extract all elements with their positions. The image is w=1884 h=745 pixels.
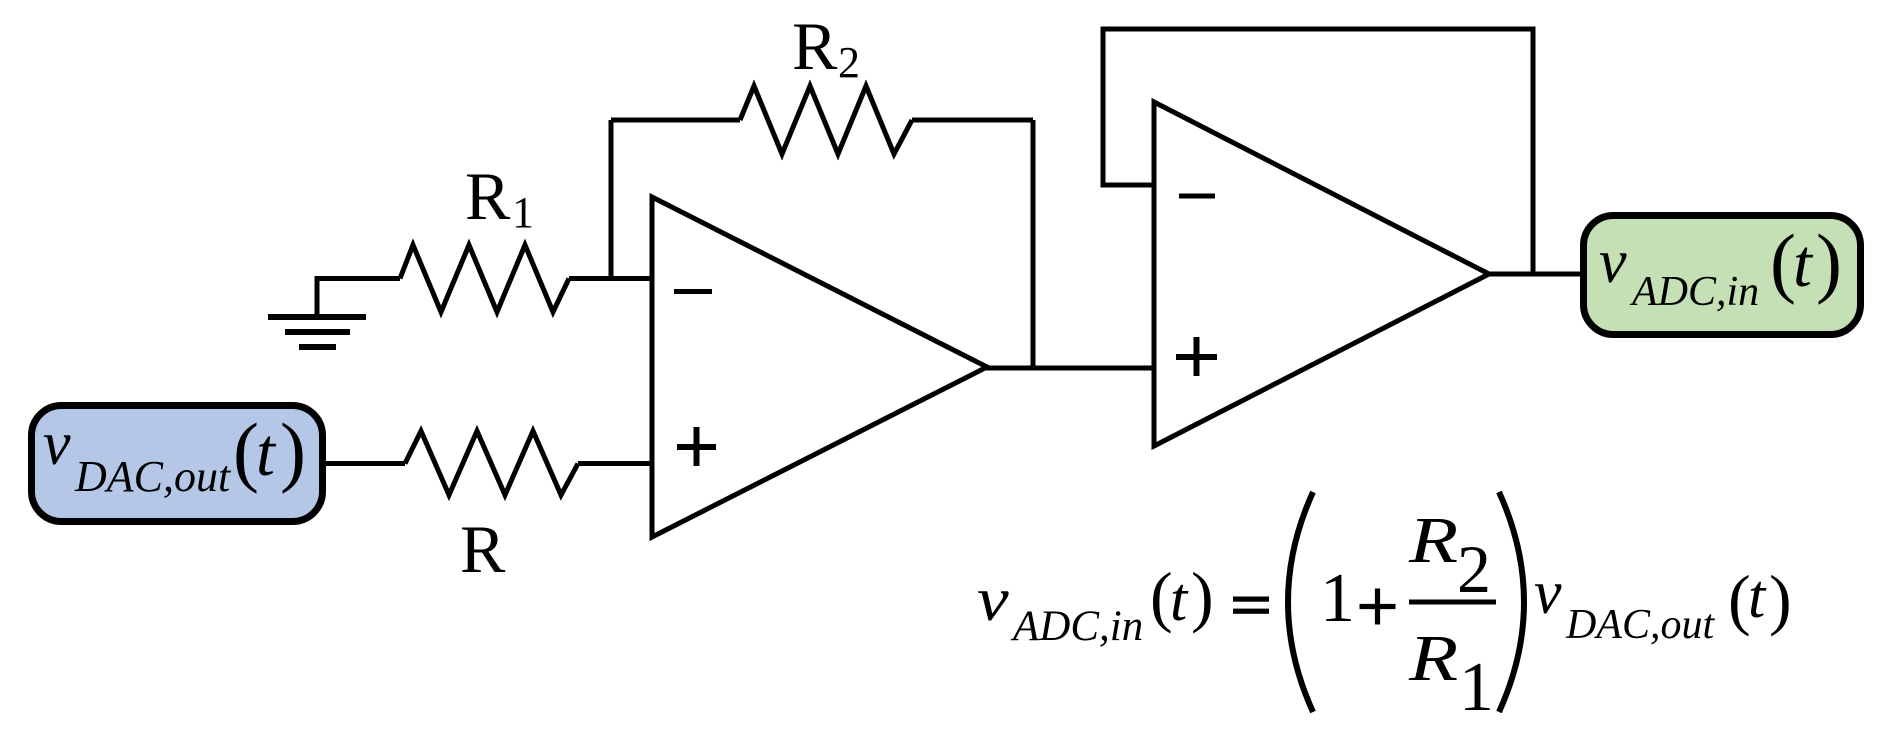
svg-text:v: v bbox=[977, 565, 1009, 634]
svg-text:v: v bbox=[43, 410, 71, 478]
label v_ADC,in(t) bbox=[1599, 218, 1842, 315]
svg-text:): ) bbox=[1816, 218, 1842, 305]
wire R2 left feedback bbox=[611, 118, 740, 123]
svg-text:v: v bbox=[1534, 559, 1562, 627]
wire feedback down to U1 output bbox=[1031, 120, 1036, 368]
svg-text:t: t bbox=[256, 414, 277, 490]
svg-text:R: R bbox=[1408, 621, 1458, 695]
svg-text:ADC,in: ADC,in bbox=[1629, 269, 1759, 315]
label R2 bbox=[792, 8, 860, 87]
svg-text:t: t bbox=[1748, 563, 1767, 631]
svg-text:): ) bbox=[1769, 561, 1792, 637]
U1 plus sign bbox=[677, 427, 716, 466]
resistor R1 bbox=[400, 245, 569, 312]
U2 plus sign bbox=[1176, 337, 1217, 376]
svg-text:1: 1 bbox=[1320, 560, 1355, 637]
wire R2 right feedback bbox=[912, 118, 1033, 123]
svg-text:ADC,in: ADC,in bbox=[1010, 603, 1143, 650]
svg-text:v: v bbox=[1599, 228, 1627, 296]
svg-text:): ) bbox=[280, 407, 306, 494]
resistor R bbox=[405, 431, 578, 495]
op-amp U2 bbox=[1154, 102, 1489, 446]
wire blue box to resistor R bbox=[326, 461, 405, 466]
svg-text:R: R bbox=[792, 8, 838, 84]
formula equals sign bbox=[1233, 597, 1269, 614]
svg-text:t: t bbox=[1793, 225, 1814, 301]
node VDAC,out terminal (blue box) bbox=[32, 406, 323, 522]
formula big right paren bbox=[1499, 492, 1524, 712]
wire resistor R to op-amp U1 + input bbox=[578, 461, 654, 466]
svg-text:R: R bbox=[1408, 503, 1458, 577]
svg-text:2: 2 bbox=[1457, 531, 1491, 607]
wire U1 output to U2 + input bbox=[986, 366, 1154, 371]
svg-text:DAC,out: DAC,out bbox=[1565, 602, 1716, 648]
wire junction up to R2 feedback bbox=[609, 120, 614, 279]
svg-text:DAC,out: DAC,out bbox=[74, 452, 232, 501]
svg-text:1: 1 bbox=[512, 188, 534, 237]
node VADC,in terminal (green box) bbox=[1584, 216, 1861, 335]
formula fraction bar bbox=[1409, 600, 1496, 605]
wire resistor R1 to op-amp U1 - input bbox=[569, 276, 654, 281]
svg-text:): ) bbox=[1191, 558, 1214, 634]
ground bbox=[268, 279, 400, 348]
svg-text:1: 1 bbox=[1459, 649, 1494, 726]
svg-text:R: R bbox=[460, 511, 506, 587]
svg-text:t: t bbox=[1170, 566, 1189, 634]
wire U2 output to green box bbox=[1489, 272, 1583, 277]
resistor R2 bbox=[740, 86, 912, 154]
svg-text:2: 2 bbox=[838, 38, 860, 87]
U2 minus sign bbox=[1179, 194, 1215, 199]
label v_DAC,out(t) bbox=[43, 407, 306, 501]
svg-text:R: R bbox=[465, 158, 511, 234]
formula v_ADC,in(t) = (1 + R2/R1) v_DAC,out(t) bbox=[977, 492, 1792, 726]
label R1 bbox=[465, 158, 534, 237]
wire U2 feedback loop bbox=[1103, 29, 1533, 274]
op-amp U1 bbox=[652, 197, 987, 537]
formula numerator R2 bbox=[1408, 503, 1491, 607]
formula big left paren bbox=[1288, 492, 1313, 712]
formula denominator R1 bbox=[1408, 621, 1494, 726]
U1 minus sign bbox=[674, 289, 712, 294]
